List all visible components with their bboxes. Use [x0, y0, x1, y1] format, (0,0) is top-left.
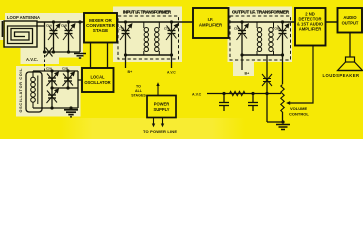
- svg-text:LOOP ANTENNA: LOOP ANTENNA: [7, 15, 40, 20]
- svg-text:C2A: C2A: [46, 67, 53, 71]
- svg-text:C7A: C7A: [119, 27, 125, 31]
- svg-text:OUTPUT I.F. TRANSFORMER: OUTPUT I.F. TRANSFORMER: [232, 10, 290, 15]
- coil T2 primary: [257, 22, 262, 55]
- svg-text:TO: TO: [136, 85, 141, 89]
- wire: audio output to speaker: [349, 33, 351, 58]
- svg-text:OSCILLATOR COIL: OSCILLATOR COIL: [19, 68, 23, 113]
- capacitor coupling (X): [262, 74, 272, 86]
- amplifier box U2: [193, 8, 229, 38]
- input IF transformer shield (dashed box): [118, 16, 179, 59]
- svg-text:A.V.C: A.V.C: [192, 93, 202, 97]
- coil T1 secondary: [155, 22, 160, 55]
- svg-text:SUPPLY: SUPPLY: [153, 107, 169, 112]
- wire: T2 bottom bus: [242, 54, 283, 56]
- pale panel: input IF transformer: [113, 7, 182, 63]
- svg-text:B+: B+: [128, 70, 133, 74]
- svg-text:LOCAL: LOCAL: [90, 75, 105, 80]
- pale panel: oscillator area: [16, 66, 81, 117]
- pale tail below output transformer (B+ area): [233, 62, 254, 76]
- svg-text:INPUT I.F. TRANSFORMER: INPUT I.F. TRANSFORMER: [123, 10, 172, 15]
- capacitor bypass 1: [219, 94, 229, 112]
- wire: power line leads (arrows down): [153, 118, 155, 126]
- wire: mixer to input IF transformer: [117, 21, 126, 23]
- capacitor C2 (AVC coupling small): [46, 48, 53, 57]
- ground (oscillator): [64, 110, 78, 117]
- wire: osc into box: [78, 79, 82, 81]
- capacitor C1B (tuning): [63, 22, 74, 52]
- svg-text:B+: B+: [245, 72, 250, 76]
- page background: [0, 0, 363, 139]
- ground (volume control): [276, 125, 290, 130]
- trimmer C8B: [277, 22, 288, 55]
- volume pot R (zigzag): [281, 85, 284, 113]
- svg-text:C8A: C8A: [234, 27, 240, 31]
- power supply box U6: [147, 96, 176, 118]
- output IF transformer shield (dashed box): [230, 16, 291, 60]
- light band bottom middle: [60, 118, 245, 139]
- pale panel: loop antenna area: [5, 13, 83, 64]
- wire: ground bus to pot: [267, 121, 283, 123]
- svg-text:STAGE: STAGE: [93, 28, 108, 33]
- svg-text:AUDIO: AUDIO: [343, 15, 357, 20]
- svg-text:LOUDSPEAKER: LOUDSPEAKER: [323, 73, 360, 78]
- svg-text:OUTPUT: OUTPUT: [342, 21, 359, 26]
- wire: transformer to amplifier: [172, 21, 194, 23]
- svg-text:C1A: C1A: [46, 24, 53, 28]
- detector box U3: [295, 8, 326, 46]
- wire: power to stages (arrow up): [157, 84, 159, 96]
- audio output box U4: [338, 8, 363, 33]
- svg-text:POWER: POWER: [154, 102, 170, 107]
- wire: osc bottom bus: [33, 107, 78, 109]
- capacitor C2B (osc trimmer): [63, 71, 74, 88]
- svg-text:CONTROL: CONTROL: [289, 112, 309, 117]
- node T1 top right: [170, 20, 173, 23]
- wire: tuning caps bottom bus: [45, 51, 81, 53]
- oscillator coil L1: [26, 72, 42, 112]
- wire: detector to audio output: [326, 21, 338, 23]
- svg-text:OSCILLATOR: OSCILLATOR: [84, 80, 110, 85]
- gang dashed link: [44, 55, 46, 71]
- svg-text:STAGES: STAGES: [131, 94, 146, 98]
- svg-text:AMPLIFIER: AMPLIFIER: [299, 27, 322, 32]
- wire: T1 bottom bus: [126, 54, 172, 56]
- svg-text:I.F.: I.F.: [208, 17, 214, 22]
- svg-text:C8B: C8B: [275, 27, 281, 31]
- wire: antenna top bus to mixer: [37, 21, 84, 23]
- trimmer C7A: [120, 22, 131, 55]
- loop antenna box: [4, 21, 37, 47]
- coil T1 primary: [144, 22, 149, 55]
- ground (antenna): [74, 54, 86, 59]
- coil T2 secondary: [269, 22, 274, 55]
- local oscillator box U5: [82, 68, 114, 92]
- wire: transformer to detector: [283, 21, 296, 23]
- capacitor C1A (tuning): [48, 22, 59, 52]
- node caps bottom: [52, 50, 55, 53]
- resistor R (AVC): [230, 91, 246, 95]
- wire: osc middle bus: [52, 87, 78, 89]
- pale sliver left edge: [0, 20, 4, 40]
- wire: T2 B+ tap: [241, 55, 243, 70]
- svg-text:TO POWER LINE: TO POWER LINE: [143, 129, 177, 134]
- node T2 top right: [281, 20, 284, 23]
- wire: amplifier to output transformer: [229, 21, 243, 23]
- wire: T2 right drop to volume pot: [282, 55, 284, 84]
- wire: antenna right vertical: [44, 22, 46, 52]
- wire: mixer to local oscillator left: [90, 43, 92, 69]
- wire: AVC drop below: [266, 94, 268, 123]
- pale panel: output IF transformer: [228, 7, 293, 63]
- wire: output transformer top bus: [242, 21, 283, 23]
- svg-text:A.V.C: A.V.C: [167, 71, 176, 75]
- capacitor bypass 2: [248, 94, 258, 112]
- loop antenna spiral: [8, 26, 45, 44]
- svg-text:ALL: ALL: [135, 89, 143, 93]
- trimmer C8A: [237, 22, 248, 55]
- svg-text:C2B: C2B: [62, 67, 69, 71]
- wire: oscillator top bus: [33, 70, 78, 72]
- loudspeaker: [338, 57, 363, 71]
- capacitor C3 (padder): [47, 88, 58, 108]
- wire: AVC tap: [171, 55, 173, 68]
- wire: osc right vertical: [77, 71, 79, 108]
- mixer box U1: [84, 13, 117, 43]
- node T2 top left: [240, 20, 243, 23]
- wire: ground drop: [79, 22, 81, 52]
- wire: input transformer internal top bus: [126, 21, 172, 23]
- wire: mixer to local oscillator right: [107, 43, 109, 69]
- svg-text:C7B: C7B: [164, 27, 170, 31]
- edge tick mark left: [2, 21, 4, 37]
- wire: B+ tap: [125, 55, 127, 68]
- svg-text:VOLUME: VOLUME: [290, 106, 307, 111]
- svg-text:A.V.C.: A.V.C.: [26, 57, 38, 62]
- node T1 top left: [124, 20, 127, 23]
- svg-text:AMPLIFIER: AMPLIFIER: [199, 23, 223, 28]
- capacitor C2A (osc tuning): [47, 71, 58, 88]
- node antenna bottom: [43, 50, 46, 53]
- svg-text:C1B: C1B: [61, 24, 68, 28]
- wire: detector output drop: [266, 55, 268, 78]
- trimmer C7B: [166, 22, 177, 55]
- wire: detector to volume wiper: [288, 46, 313, 104]
